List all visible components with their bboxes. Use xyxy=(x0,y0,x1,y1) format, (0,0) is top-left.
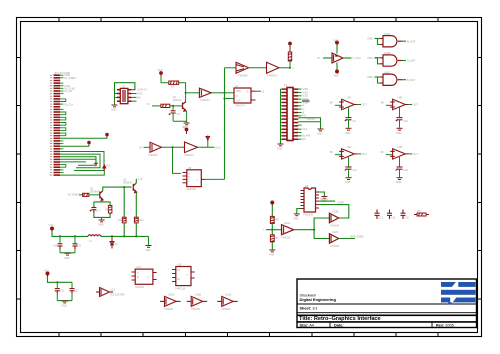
wire U12C out xyxy=(339,238,355,240)
svg-text:D: D xyxy=(236,95,238,98)
transistor Q2 xyxy=(100,191,103,200)
svg-text:GND: GND xyxy=(64,257,70,260)
resistor R6 xyxy=(270,216,274,223)
svg-text:1A: 1A xyxy=(177,269,180,272)
wire junction to buffer U5A xyxy=(186,92,200,94)
oscillator X2 labels xyxy=(122,84,148,99)
wire U5B to U5C xyxy=(162,146,185,148)
svg-text:IN: IN xyxy=(317,57,320,60)
diode D2 vertical xyxy=(206,136,210,142)
wire bracket 2 xyxy=(60,154,100,168)
svg-text:IN: IN xyxy=(330,151,333,154)
supply symbol at pin28 wire xyxy=(88,141,91,146)
svg-text:IN: IN xyxy=(139,145,142,149)
capacitor C11 xyxy=(345,167,352,171)
svg-text:VID1: VID1 xyxy=(367,56,373,60)
wire gate2 to pullup xyxy=(279,67,290,69)
wire down to U12C xyxy=(314,230,329,239)
wire X1 pin10 to gnd xyxy=(298,118,320,129)
IC U14 body xyxy=(135,269,153,284)
ground below U3 left xyxy=(294,214,300,216)
bypass capacitor C15 xyxy=(401,210,406,220)
resistor R10 in filter xyxy=(108,205,112,213)
wire bracket 3 xyxy=(60,157,96,166)
svg-text:74HC04: 74HC04 xyxy=(330,245,340,248)
connector SV1 pin numbers xyxy=(50,75,52,176)
svg-text:GND: GND xyxy=(345,132,351,135)
wire R12 to rail xyxy=(135,223,137,237)
IC U3 pins right xyxy=(316,192,320,208)
svg-text:C20: C20 xyxy=(60,290,65,293)
AND gate U10A input hook xyxy=(367,37,381,45)
svg-text:CLK: CLK xyxy=(236,100,241,103)
wire junction down to U8 xyxy=(173,147,182,173)
IC U3 body xyxy=(304,188,316,212)
AND gate U10B input hook xyxy=(367,56,381,64)
buffer U16C xyxy=(217,296,238,306)
op-amp U9B input wire xyxy=(381,102,393,106)
svg-text:2A: 2A xyxy=(177,278,180,281)
DIN connector X1 left pins xyxy=(282,88,287,140)
svg-text:Date:: Date: xyxy=(334,323,344,327)
DIN X1 right stubs xyxy=(298,89,301,139)
AND gate U10C xyxy=(381,74,402,85)
svg-text:R10: R10 xyxy=(105,209,110,212)
wire pin33 down to gnd tap xyxy=(60,159,96,163)
AND gate U10C output wire xyxy=(402,79,407,81)
svg-text:U12B: U12B xyxy=(332,211,339,214)
svg-text:C16: C16 xyxy=(405,217,410,220)
op-amp U9C wire to cap xyxy=(348,157,350,167)
ground below C11 xyxy=(346,178,352,180)
transistor Q3 xyxy=(133,183,136,192)
svg-text:74HC04: 74HC04 xyxy=(148,153,158,157)
capacitor C10 xyxy=(396,118,403,122)
wire bottom to emitter and gnd xyxy=(173,111,187,122)
IC U15 labels xyxy=(175,264,188,291)
svg-text:IN_VIDEO: IN_VIDEO xyxy=(65,77,77,80)
op-amp U9D body xyxy=(390,149,405,159)
svg-text:OUT: OUT xyxy=(362,104,368,107)
svg-text:Rev: 2005: Rev: 2005 xyxy=(436,323,454,327)
resistor R12 xyxy=(134,217,138,223)
IC U8 pins left xyxy=(183,173,187,183)
svg-text:VCC: VCC xyxy=(334,40,339,43)
junction dot cap pair xyxy=(56,281,58,283)
buffer U16A xyxy=(160,296,181,306)
svg-text:GND: GND xyxy=(98,224,104,227)
IC U14 pins xyxy=(132,272,157,280)
connector pin labels xyxy=(65,74,77,106)
svg-text:GND: GND xyxy=(396,132,402,135)
svg-text:2N3904: 2N3904 xyxy=(123,181,132,184)
svg-text:C18: C18 xyxy=(53,245,58,248)
gate U5C xyxy=(185,142,198,153)
wire bus pin25 xyxy=(60,137,107,139)
frame ticks left xyxy=(17,58,21,300)
oscillator X2 left wires xyxy=(115,94,118,105)
svg-text:74HC86: 74HC86 xyxy=(238,74,248,78)
svg-text:C: C xyxy=(188,180,190,183)
svg-text:74HC04: 74HC04 xyxy=(191,308,201,311)
IC U15 pins xyxy=(172,270,195,282)
svg-text:U14: U14 xyxy=(137,266,142,269)
svg-text:C14: C14 xyxy=(391,217,396,220)
op-amp U9A body xyxy=(339,99,354,109)
AND gate U10A output wire xyxy=(402,40,407,42)
ground below caps xyxy=(65,253,71,255)
wire into R9 xyxy=(79,194,83,196)
op-amp U9B body xyxy=(390,99,405,109)
svg-text:Title: Retro–Graphics Interfac: Title: Retro–Graphics Interface xyxy=(299,316,381,322)
op-amp U9D input wire xyxy=(381,151,393,155)
wire rail after L1 xyxy=(101,235,149,237)
svg-text:U13: U13 xyxy=(111,289,116,292)
wire U5A out to vertical bus xyxy=(211,92,224,94)
wire Q2 collector up and right to Q3 base xyxy=(103,187,132,191)
svg-text:C12: C12 xyxy=(404,169,409,172)
svg-text:PRE: PRE xyxy=(236,90,241,93)
svg-text:VID2: VID2 xyxy=(367,75,373,79)
svg-text:OSC: OSC xyxy=(137,92,143,96)
vcc for inductor rail xyxy=(51,227,54,232)
IC U14 labels xyxy=(135,266,150,289)
wire caps to ground xyxy=(60,252,75,254)
svg-text:U16A: U16A xyxy=(168,294,175,297)
ground below Q1 xyxy=(184,123,190,125)
wire R3 to Q1 collector xyxy=(179,83,186,103)
svg-text:OUT: OUT xyxy=(362,153,368,156)
svg-text:C10: C10 xyxy=(404,120,409,123)
svg-text:OUT_SYNC: OUT_SYNC xyxy=(350,235,364,238)
op-amp U9B wire to cap xyxy=(399,108,401,118)
vcc above divider xyxy=(271,201,274,206)
wire U2 out xyxy=(256,90,262,92)
svg-text:U9D: U9D xyxy=(398,146,403,149)
wire junction down to C5 xyxy=(172,106,174,111)
wire C9 to ground xyxy=(348,120,350,128)
inductor L1 xyxy=(88,235,101,237)
svg-text:VCC: VCC xyxy=(44,270,49,273)
gate U7A xyxy=(267,62,280,73)
op-amp U9A input wire xyxy=(330,102,342,106)
wire U12A out xyxy=(294,229,314,231)
DIN connector X1 left ground bus xyxy=(281,89,282,144)
svg-text:IN_CLK: IN_CLK xyxy=(65,103,74,106)
wire bus down to U8 right pin xyxy=(205,178,225,180)
ground tap symbol xyxy=(94,163,98,165)
svg-text:IN: IN xyxy=(381,102,384,105)
svg-text:Size: A4: Size: A4 xyxy=(300,323,314,327)
capacitor C12 xyxy=(396,167,403,171)
wire vcc down to rail xyxy=(52,232,88,237)
junction dot divider xyxy=(271,229,273,231)
svg-text:U10B: U10B xyxy=(384,52,391,55)
op-amp U11 xyxy=(317,40,361,78)
IC U2 body xyxy=(234,88,251,103)
svg-text:74HC04: 74HC04 xyxy=(164,308,174,311)
diode D3 vertical xyxy=(110,236,114,248)
svg-text:V_OUT: V_OUT xyxy=(353,57,362,60)
resistor R11 xyxy=(122,217,126,223)
IC U2 left pin wires xyxy=(223,93,234,100)
ground right of X1 xyxy=(318,129,324,131)
wire U3 top right pin to gnd xyxy=(319,192,324,196)
svg-text:CLK14.3: CLK14.3 xyxy=(137,88,148,92)
svg-text:74HC04: 74HC04 xyxy=(200,98,210,102)
svg-text:U9B: U9B xyxy=(398,97,403,100)
svg-text:74HC139: 74HC139 xyxy=(175,288,186,291)
oscillator X2 right stubs xyxy=(131,94,137,102)
svg-text:X1: X1 xyxy=(284,83,288,87)
svg-text:74HC04: 74HC04 xyxy=(330,225,340,228)
svg-text:LOOP: LOOP xyxy=(337,202,344,205)
junction dots rail right xyxy=(111,235,113,237)
junction dots rail xyxy=(59,235,61,237)
wire C12 to ground xyxy=(399,169,401,177)
wire up to U12B xyxy=(314,218,329,230)
ground at rail end xyxy=(146,246,152,248)
svg-text:C19: C19 xyxy=(77,245,82,248)
capacitor C5 xyxy=(169,111,176,115)
Q3 emitter wire down xyxy=(135,192,137,217)
svg-text:OUT: OUT xyxy=(413,104,419,107)
vcc symbol top of R3 xyxy=(160,72,163,77)
svg-text:U10A: U10A xyxy=(384,33,391,36)
ground below filter xyxy=(99,220,105,222)
svg-text:EN: EN xyxy=(137,95,141,99)
DIN connector X1 right pins xyxy=(293,88,298,140)
bypass capacitor C13 xyxy=(375,210,380,220)
svg-text:U16B: U16B xyxy=(195,294,202,297)
wire X1 pin12 xyxy=(298,121,320,123)
svg-text:VID0: VID0 xyxy=(367,37,373,41)
ground below X2 xyxy=(112,105,118,107)
svg-text:74HC04: 74HC04 xyxy=(281,237,291,240)
svg-text:2N3904: 2N3904 xyxy=(90,190,99,193)
svg-text:R11: R11 xyxy=(118,219,123,222)
svg-text:VCC: VCC xyxy=(49,224,54,227)
transistor Q1 xyxy=(183,102,186,111)
wire pin28 xyxy=(60,145,89,147)
svg-text:CLK: CLK xyxy=(216,145,221,149)
op-amp U9D output xyxy=(398,146,419,156)
vcc above R5 xyxy=(289,42,292,52)
IC U15 body xyxy=(176,267,191,286)
buffer U5A xyxy=(199,88,211,97)
svg-text:R12: R12 xyxy=(139,219,144,222)
svg-text:VCC: VCC xyxy=(106,166,111,168)
svg-text:IN_INT: IN_INT xyxy=(65,90,73,93)
resistor R5 pullup xyxy=(288,52,291,61)
buffer U12C xyxy=(329,234,338,244)
LC filter box wires xyxy=(94,200,110,220)
op-amp U9C body xyxy=(339,149,354,159)
wire emitter to ground xyxy=(186,121,188,122)
IC U2 pins right xyxy=(251,91,256,100)
junction dot collector wire xyxy=(123,186,125,188)
oscillator X2 body xyxy=(120,88,128,103)
wire cap pair bottom xyxy=(57,300,72,302)
resistor R3 xyxy=(169,81,179,84)
svg-text:GND: GND xyxy=(345,181,351,184)
junction diode to wire xyxy=(207,142,209,148)
capacitor C18 xyxy=(59,236,61,253)
AND gate U10B output wire xyxy=(402,60,407,62)
ground below C9 xyxy=(346,128,352,130)
connector SV1 jumper hooks xyxy=(60,99,66,167)
svg-text:IN_VIDEO: IN_VIDEO xyxy=(68,194,80,197)
op-amp U9B output xyxy=(398,97,419,107)
svg-text:U9A: U9A xyxy=(347,97,352,100)
ground below cap pair xyxy=(62,301,68,303)
vcc bottom left xyxy=(46,272,49,277)
svg-text:OUT: OUT xyxy=(413,153,419,156)
svg-text:GND: GND xyxy=(269,254,275,257)
resistor R9 xyxy=(83,193,89,196)
resistor R4 xyxy=(161,104,170,107)
frame ticks top xyxy=(59,18,438,22)
svg-text:C17: C17 xyxy=(95,210,100,213)
svg-text:GND: GND xyxy=(396,181,402,184)
wire U3 bottom left pin to gnd xyxy=(297,209,301,214)
buffer U12B xyxy=(329,213,338,223)
wire R7 to gnd xyxy=(271,242,273,250)
svg-text:Q: Q xyxy=(246,91,248,94)
buffer U12A xyxy=(282,225,294,235)
svg-text:B_OUT: B_OUT xyxy=(407,79,416,82)
wire divider to buffer T1 xyxy=(272,229,281,231)
wire U5C out xyxy=(198,146,215,148)
svg-text:C11: C11 xyxy=(353,169,358,172)
IC U8 labels xyxy=(186,167,198,191)
svg-text:U10C: U10C xyxy=(384,71,391,74)
svg-text:VCC: VCC xyxy=(158,69,163,72)
capacitor C17 in filter xyxy=(90,208,97,214)
wire vcc to cap pair xyxy=(48,277,73,283)
Q3 collector stub with label xyxy=(135,179,137,183)
svg-text:X2: X2 xyxy=(122,84,126,88)
op-amp U9D wire to cap xyxy=(399,157,401,167)
junction dot base wire xyxy=(172,105,174,107)
svg-text:Digital Engineering: Digital Engineering xyxy=(300,297,337,302)
svg-text:C21: C21 xyxy=(74,290,79,293)
svg-text:V+5: V+5 xyxy=(138,178,143,181)
rail end down to ground xyxy=(148,236,150,245)
svg-text:Q: Q xyxy=(262,89,264,93)
resistor R8 horizontal xyxy=(414,213,429,216)
wire R11 to rail xyxy=(123,223,125,237)
wire C11 to ground xyxy=(348,169,350,177)
frame ticks bottom xyxy=(59,333,438,337)
ground below C10 xyxy=(397,128,403,130)
supply symbol at pin25 wire xyxy=(106,133,109,138)
wire pin39 bottom xyxy=(60,171,104,175)
op-amp U9C input wire xyxy=(330,151,342,155)
capacitor C21 xyxy=(71,282,73,300)
svg-text:GND: GND xyxy=(61,305,67,308)
svg-text:U16C: U16C xyxy=(225,294,232,297)
wire R6 to junction xyxy=(271,224,273,235)
junction dot bus xyxy=(223,92,225,94)
svg-text:74HC00: 74HC00 xyxy=(135,286,144,289)
svg-text:GND: GND xyxy=(277,148,283,151)
svg-text:EN: EN xyxy=(303,138,307,141)
frame ticks right xyxy=(478,58,482,300)
svg-text:74HC74: 74HC74 xyxy=(235,104,245,107)
bypass capacitor C14 xyxy=(387,210,392,220)
svg-text:GND: GND xyxy=(317,133,323,136)
svg-text:VCC: VCC xyxy=(182,126,187,129)
DIN X1 right pin labels xyxy=(302,88,315,141)
wire C5 down to bottom xyxy=(172,113,174,121)
wire vcc to R6 xyxy=(271,206,273,217)
junction dot pullup xyxy=(289,67,291,69)
svg-text:GND: GND xyxy=(111,109,117,112)
title block frame xyxy=(297,279,477,328)
op-amp U9A wire to cap xyxy=(348,108,350,118)
svg-text:74HC04: 74HC04 xyxy=(184,153,194,157)
op-amp U9C output xyxy=(347,146,368,156)
ground below divider xyxy=(269,250,275,252)
vertical bus wire xyxy=(224,68,226,180)
wire into U5B xyxy=(144,146,151,148)
svg-text:2N2222: 2N2222 xyxy=(173,99,182,102)
resistor R7 xyxy=(270,235,274,242)
wire pin34 xyxy=(60,161,86,163)
svg-text:G_OUT: G_OUT xyxy=(407,60,416,63)
svg-text:GND: GND xyxy=(293,218,299,221)
junction dot collector xyxy=(185,92,187,94)
AND gate U10B xyxy=(381,55,402,66)
connector SV1 pins xyxy=(54,74,61,176)
wire R9 to Q2 base xyxy=(89,194,100,196)
svg-text:IN: IN xyxy=(330,102,333,105)
gate U5B xyxy=(150,142,162,152)
svg-text:IN: IN xyxy=(381,151,384,154)
ground below C12 xyxy=(397,178,403,180)
IC U8 pin right xyxy=(201,178,205,180)
AND gate U10A xyxy=(381,36,402,47)
wire U3 feedback top xyxy=(319,205,349,218)
svg-text:74LS245: 74LS245 xyxy=(303,214,314,217)
IC U8 body xyxy=(187,170,202,187)
wire U3 right pin long xyxy=(319,200,335,202)
svg-text:GND: GND xyxy=(145,249,151,252)
svg-text:VEE: VEE xyxy=(334,75,339,78)
ground right of U3 xyxy=(321,197,327,199)
DIN connector X1 body xyxy=(287,88,293,141)
svg-text:U12C: U12C xyxy=(332,231,339,234)
wire pullup xyxy=(289,61,291,68)
wire gate1 to gate2 xyxy=(249,67,267,69)
ground below X1 xyxy=(278,144,284,146)
buffer U13 xyxy=(96,288,113,297)
AND gate U10C input hook xyxy=(367,75,381,83)
svg-text:74HC04: 74HC04 xyxy=(267,74,277,78)
wire C10 to ground xyxy=(399,120,401,128)
buffer U16B xyxy=(187,296,208,306)
oscillator X2 pins xyxy=(117,89,131,102)
IC U3 pins left xyxy=(301,191,305,209)
IC U2 inner labels xyxy=(235,85,248,103)
svg-text:VIDEO →: VIDEO → xyxy=(320,198,331,201)
op-amp U9A output xyxy=(347,97,368,107)
junction dot after U12A xyxy=(313,229,315,231)
oscillator X2 green loop xyxy=(115,83,135,94)
svg-text:RS-232 DRV: RS-232 DRV xyxy=(111,294,126,297)
connector SV1 green pin stubs xyxy=(60,75,63,172)
